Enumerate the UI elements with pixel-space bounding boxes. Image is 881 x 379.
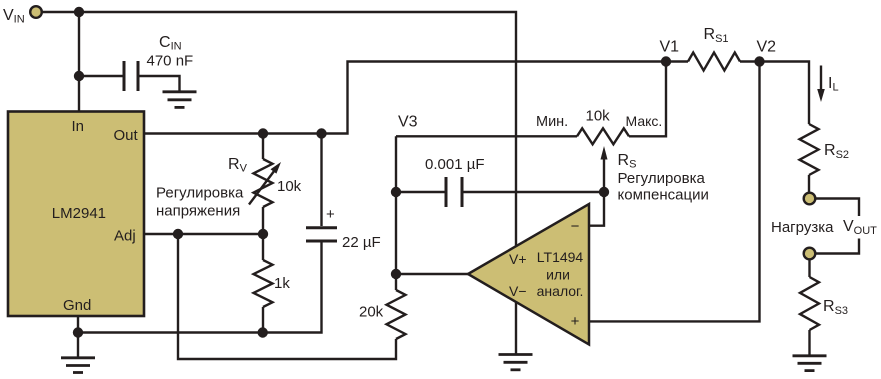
svg-text:V1: V1 (660, 39, 680, 56)
wire VOUT bracket bottom (816, 239, 859, 254)
ground CIN (163, 92, 197, 108)
wire RS3 to ground (808, 330, 810, 355)
node junction (263,234) (258, 229, 268, 239)
wire VIN to In pin (78, 12, 80, 112)
wire 0.001uF left (396, 191, 445, 193)
potentiometer RS 10k (577, 128, 629, 144)
svg-text:470 nF: 470 nF (147, 53, 194, 70)
wire V3 to pot (396, 135, 577, 137)
wire CIN to ground (140, 76, 180, 91)
node junction (396,192) (391, 187, 401, 197)
wire terminal to RS3 (808, 260, 810, 277)
wire V1 to RS1 (666, 60, 688, 62)
svg-text:1k: 1k (274, 275, 290, 292)
svg-text:−: − (571, 218, 580, 235)
node junction (396,274) (391, 269, 401, 279)
svg-text:Макс.: Макс. (626, 113, 663, 129)
capacitor CIN (124, 61, 138, 91)
svg-text:Out: Out (114, 127, 139, 144)
wire 0.001uF right (464, 191, 605, 193)
IC LM2941 (8, 112, 144, 317)
svg-text:+: + (571, 313, 580, 330)
svg-text:V−: V− (509, 283, 527, 299)
wire 22uF top lead (320, 134, 322, 227)
node junction (262.7,332.5) (258, 327, 268, 337)
node junction (263,133.5) (258, 128, 268, 138)
wire Adj to 20k bottom (178, 234, 396, 359)
resistor RS1 (688, 53, 740, 71)
wire RV top lead (262, 134, 264, 160)
svg-text:VIN: VIN (3, 7, 25, 26)
svg-text:VOUT: VOUT (843, 218, 877, 237)
svg-text:RS2: RS2 (824, 142, 849, 161)
resistor RS3 (800, 277, 819, 330)
wire RS1 to V2 to corner (740, 60, 760, 62)
wire Adj (144, 233, 263, 235)
terminal load top (804, 193, 816, 205)
wire V3 vertical (395, 136, 397, 274)
ground opamp (499, 355, 533, 370)
svg-text:RS3: RS3 (823, 298, 848, 317)
svg-text:10k: 10k (277, 178, 302, 195)
node junction (78,332.5) (73, 327, 83, 337)
node junction (666,61.5) (661, 56, 671, 66)
svg-text:Мин.: Мин. (536, 114, 568, 130)
svg-text:V+: V+ (509, 251, 527, 267)
resistor RS2 (800, 124, 819, 175)
capacitor 0.001uF (446, 177, 462, 207)
arrow RV wiper (249, 169, 276, 205)
node junction (321.5,133.5) (316, 128, 326, 138)
node junction (178,234) (173, 229, 183, 239)
wire Out to V1 rail (144, 62, 666, 134)
svg-text:Adj: Adj (114, 228, 136, 245)
svg-text:0.001 µF: 0.001 µF (425, 156, 485, 173)
svg-text:IL: IL (828, 75, 839, 94)
wire VOUT bracket top (816, 199, 859, 217)
resistor 20k (387, 290, 406, 339)
wire pot to V1 (629, 62, 666, 137)
wire RS wiper (603, 158, 605, 192)
svg-text:Нагрузка: Нагрузка (771, 219, 834, 236)
svg-text:LM2941: LM2941 (52, 205, 106, 222)
terminal VIN (30, 6, 42, 18)
svg-text:или: или (546, 267, 570, 283)
svg-text:22 µF: 22 µF (342, 234, 381, 251)
wire 1k leads (262, 234, 264, 260)
svg-text:V3: V3 (398, 114, 418, 131)
wire RS2 to terminal (808, 175, 810, 192)
wire 20k top lead (395, 274, 397, 290)
svg-text:аналог.: аналог. (537, 283, 584, 299)
svg-text:RV: RV (228, 156, 248, 175)
svg-text:Регулировка: Регулировка (156, 185, 244, 202)
svg-text:Регулировка: Регулировка (618, 170, 706, 187)
svg-text:V2: V2 (757, 39, 777, 56)
wire VIN top rail (42, 12, 516, 247)
svg-text:Gnd: Gnd (63, 297, 91, 314)
resistor 1k (254, 260, 273, 307)
resistor RV 10k (254, 159, 273, 207)
svg-text:напряжения: напряжения (156, 203, 240, 220)
ground RS3 (793, 356, 827, 371)
wire opamp output (396, 273, 468, 275)
svg-text:+: + (326, 206, 335, 223)
svg-text:RS1: RS1 (704, 26, 729, 45)
wire opamp Vminus to ground (515, 246, 517, 354)
arrow IL (820, 66, 822, 92)
svg-text:20k: 20k (359, 304, 384, 321)
svg-text:In: In (72, 118, 85, 135)
svg-text:LT1494: LT1494 (537, 249, 584, 265)
capacitor 22uF (306, 228, 337, 241)
node junction (79,12) (74, 7, 84, 17)
svg-text:CIN: CIN (159, 34, 182, 53)
terminal load bottom (804, 248, 816, 260)
wire noninverting input to V2 (589, 62, 760, 322)
wire Gnd net (77, 316, 79, 333)
op-amp U1 LT1494 (468, 204, 589, 345)
wire CIN branch (79, 75, 123, 77)
node junction (759.5,61.5) (754, 56, 764, 66)
node junction (79,76) (74, 71, 84, 81)
ground LM2941 (77, 333, 79, 358)
svg-text:компенсации: компенсации (618, 187, 709, 204)
svg-text:10k: 10k (586, 108, 611, 125)
wire inverting input (589, 192, 604, 226)
node junction (604,192) (599, 187, 609, 197)
svg-text:RS: RS (618, 152, 637, 171)
wire RV bottom lead (262, 207, 264, 234)
